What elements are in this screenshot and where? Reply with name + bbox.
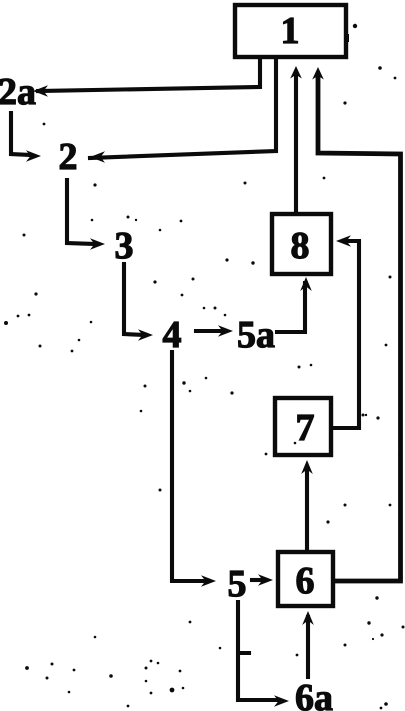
arrowhead into 3 xyxy=(90,238,105,250)
svg-text:8: 8 xyxy=(291,225,310,267)
svg-text:4: 4 xyxy=(163,314,182,356)
svg-text:3: 3 xyxy=(115,225,134,267)
wire 5a to block8 xyxy=(277,283,305,332)
arrowhead into block8 bottom xyxy=(300,277,312,291)
arrowhead into 2a xyxy=(33,85,48,97)
svg-text:6a: 6a xyxy=(295,677,333,711)
arrowhead into block6 bottom xyxy=(302,611,314,625)
svg-text:2a: 2a xyxy=(0,71,36,113)
arrowhead into block1 from right loop xyxy=(312,67,324,80)
wire 3 to 4 xyxy=(124,264,144,335)
arrowhead into 4 xyxy=(138,329,153,341)
arrowhead into 5a xyxy=(218,325,233,337)
svg-text:5: 5 xyxy=(228,563,247,605)
svg-text:6: 6 xyxy=(296,560,315,602)
block 6 xyxy=(278,552,333,606)
wire 4 to 5 xyxy=(172,352,205,581)
wire 6a to block6 xyxy=(306,617,310,677)
wire 5 to block6 xyxy=(252,578,263,582)
block 8 xyxy=(272,214,331,274)
wire block6 right loop to block1 xyxy=(318,75,401,581)
block 1 xyxy=(235,5,346,57)
wire block7 to block8 xyxy=(333,241,359,428)
arrowhead into 2 from 2a xyxy=(26,150,41,162)
wire 2a to 2 xyxy=(11,113,30,155)
arrowhead into 2 xyxy=(90,151,105,163)
svg-text:2: 2 xyxy=(59,136,78,178)
wire block1 to 2a xyxy=(38,58,260,91)
arrowhead into 5 xyxy=(201,575,216,587)
svg-text:5a: 5a xyxy=(237,314,275,356)
arrowhead into block7 bottom xyxy=(301,460,313,474)
arrowhead into block8 right xyxy=(336,235,351,247)
wire 4 to 5a xyxy=(196,329,223,333)
svg-text:1: 1 xyxy=(281,10,300,52)
arrowhead into block1 from block8 xyxy=(290,66,302,79)
wire 5 to 6a xyxy=(238,602,277,700)
wire block8 to block1 xyxy=(294,74,298,212)
arrowhead into block6 left xyxy=(258,574,273,586)
block 7 xyxy=(275,398,331,455)
arrowhead into 6a xyxy=(274,695,289,707)
wire block1 to 2 xyxy=(90,58,276,158)
wire block6 to block7 xyxy=(305,468,309,550)
wire 2 to 3 xyxy=(67,180,95,244)
svg-text:7: 7 xyxy=(296,407,315,449)
